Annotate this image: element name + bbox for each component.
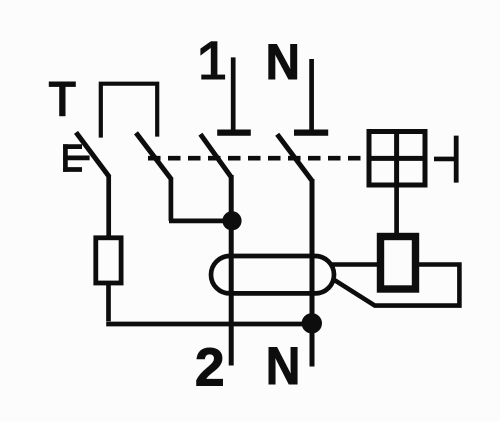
- CT secondary top lead: [330, 262, 378, 267]
- trip coil: [381, 237, 416, 290]
- terminal 1 contact bar: [217, 130, 251, 136]
- test-circuit contact blade: [136, 133, 172, 180]
- mechanical linkage (dashed): [148, 156, 366, 161]
- linkage to actuator terminal: [434, 157, 456, 162]
- pushbutton actuator E: [63, 144, 89, 172]
- test contact blade: [76, 132, 109, 176]
- CT secondary bottom lead loop: [333, 265, 460, 306]
- current transformer toroid: [211, 256, 334, 293]
- label T (test button): [49, 82, 76, 117]
- terminal N lead: [309, 59, 314, 130]
- svg-text:N: N: [266, 337, 301, 396]
- terminal N contact bar: [294, 130, 328, 136]
- pole 1 switch blade: [200, 134, 230, 176]
- node A (junction dot on pole 1): [222, 211, 241, 230]
- wire blade to resistor: [106, 175, 111, 238]
- actuator end bar: [454, 136, 459, 183]
- wire relay box to trip coil: [394, 185, 399, 234]
- pole N conductor: [310, 179, 315, 367]
- terminal 1 lead: [231, 57, 236, 130]
- label 1: [200, 41, 225, 79]
- wire test contact to node A: [169, 178, 231, 221]
- wire bridge over test contact: [101, 84, 157, 138]
- pole 1 conductor: [229, 175, 234, 366]
- wire resistor to node B: [106, 283, 310, 324]
- svg-text:2: 2: [195, 339, 225, 398]
- node B (junction dot on N): [302, 313, 322, 333]
- resistor R (test resistor): [96, 238, 121, 283]
- trip relay box (2x2 grid): [369, 132, 425, 186]
- svg-text:N: N: [266, 34, 300, 90]
- pole N switch blade: [277, 134, 312, 181]
